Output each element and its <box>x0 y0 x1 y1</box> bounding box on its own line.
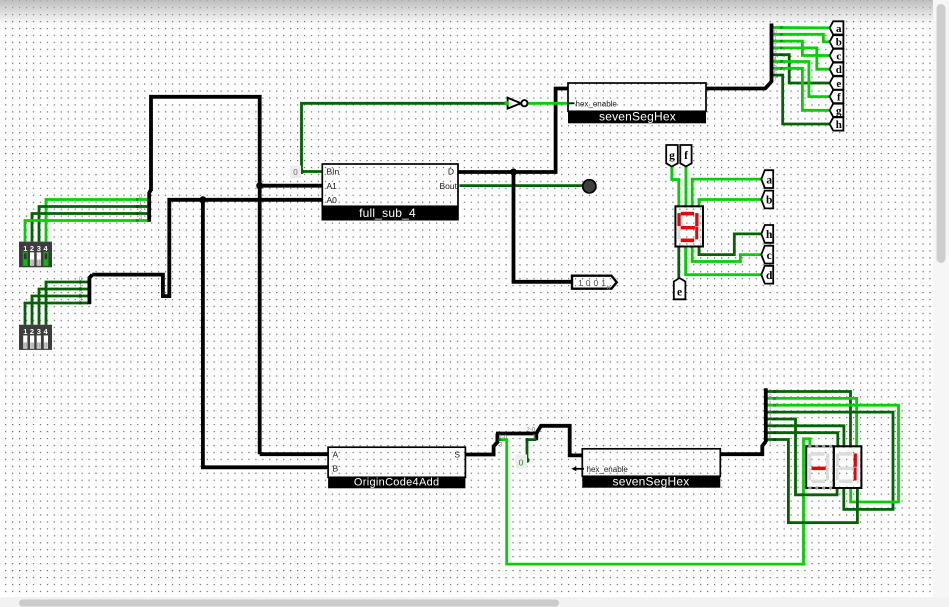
wire display to tunnel e <box>677 246 680 279</box>
wire green NOT gate output to hex_enable <box>527 102 568 105</box>
wire fan c top right <box>772 41 834 55</box>
wire green Bout to LED <box>460 184 583 187</box>
svg-text:sevenSegHex: sevenSegHex <box>599 109 676 123</box>
gate NOT U1 <box>505 98 528 109</box>
wire display to tunnel c <box>692 246 762 262</box>
svg-text:3: 3 <box>37 244 41 253</box>
svg-text:A1: A1 <box>327 181 338 191</box>
svg-text:1: 1 <box>23 244 27 253</box>
pin d <box>830 63 844 77</box>
svg-text:3: 3 <box>769 414 772 420</box>
vertical scrollbar <box>933 0 949 597</box>
wire fan bottom h <box>766 440 858 523</box>
svg-text:b: b <box>607 285 611 292</box>
seven segment display mid <box>675 206 703 246</box>
splitter DIP1 spine <box>149 190 151 222</box>
pin h <box>830 117 844 130</box>
svg-text:e: e <box>677 287 682 299</box>
svg-text:hex_enable: hex_enable <box>587 465 629 474</box>
svg-text:0: 0 <box>769 394 772 400</box>
splitter bottom right spine <box>764 388 768 442</box>
svg-text:OriginCode4Add: OriginCode4Add <box>354 477 440 489</box>
svg-text:5: 5 <box>774 63 777 69</box>
wire bus DIP2 to A0 and OriginCode4Add B <box>92 200 328 468</box>
node wire dots DIP1 legs <box>136 198 139 222</box>
svg-text:2: 2 <box>30 327 34 336</box>
svg-text:0: 0 <box>774 29 777 35</box>
wire green splitter leg to long bottom wire and left display <box>500 439 810 564</box>
value label 0 at BIn <box>290 166 301 179</box>
pin g <box>830 104 844 118</box>
svg-text:2: 2 <box>139 208 142 214</box>
pin a <box>830 21 844 35</box>
svg-text:A0: A0 <box>327 195 338 205</box>
svg-text:2: 2 <box>30 244 34 253</box>
node junction A1 <box>256 182 263 189</box>
wire tunnel b to display <box>699 200 762 208</box>
node end dot value 0 <box>524 458 529 463</box>
tunnel a <box>761 170 773 188</box>
svg-text:c: c <box>836 50 841 62</box>
svg-text:0: 0 <box>293 168 298 177</box>
splitter S labels <box>499 427 537 448</box>
svg-text:4: 4 <box>774 57 777 63</box>
wire fan bottom b <box>766 398 857 447</box>
DIP switch SW2 <box>19 325 52 350</box>
wire fan a top right <box>772 26 834 29</box>
svg-text:3: 3 <box>774 50 777 56</box>
wire fan b top right <box>772 34 834 42</box>
svg-text:5: 5 <box>769 428 772 434</box>
LED indicator <box>583 180 596 193</box>
wire fan bottom f <box>766 426 844 448</box>
svg-text:d: d <box>836 64 842 76</box>
svg-text:0: 0 <box>139 194 142 200</box>
svg-text:2: 2 <box>769 408 772 414</box>
svg-text:S: S <box>454 450 460 460</box>
svg-text:1: 1 <box>769 401 772 407</box>
svg-text:a: a <box>836 23 842 35</box>
tunnel b <box>761 191 773 209</box>
svg-text:g: g <box>669 150 675 162</box>
svg-text:1: 1 <box>774 36 777 42</box>
wire fan bottom c <box>766 405 899 502</box>
wire tunnel g to display <box>672 166 679 208</box>
wire DIP2 bit0 <box>46 282 88 325</box>
svg-text:BIn: BIn <box>327 167 340 177</box>
svg-text:c: c <box>767 250 772 262</box>
svg-text:b: b <box>836 37 842 49</box>
svg-text:4: 4 <box>769 421 772 427</box>
wire DIP2 bit3 <box>25 303 88 325</box>
wire DIP2 bit1 <box>39 289 88 325</box>
wire green NOT gate input from BIn node <box>302 103 507 171</box>
subcircuit full_sub_4 <box>322 164 459 221</box>
svg-text:7: 7 <box>769 442 772 448</box>
wire fan bottom a <box>766 392 851 448</box>
svg-text:0: 0 <box>519 458 524 468</box>
svg-text:Bout: Bout <box>440 181 458 191</box>
svg-text:3: 3 <box>139 215 142 221</box>
svg-text:D: D <box>448 167 454 177</box>
wire DIP1 bit1 <box>39 207 148 242</box>
wire DIP1 bit3 <box>25 221 148 242</box>
wire fan bottom g <box>766 433 838 448</box>
subcircuit sevenSegHex top <box>568 83 706 123</box>
svg-text:h: h <box>766 229 773 241</box>
node splitter leg corner dots <box>498 438 501 441</box>
wire bus DIP1 to A1 and OriginCode4Add A <box>151 97 328 454</box>
wire tunnel f to display <box>685 166 688 208</box>
tunnel c <box>761 246 773 264</box>
node junction A0 <box>199 196 206 203</box>
svg-text:2: 2 <box>774 43 777 49</box>
tunnel h <box>761 225 773 243</box>
svg-text:full_sub_4: full_sub_4 <box>359 206 416 220</box>
svg-text:1: 1 <box>23 327 27 336</box>
svg-text:h: h <box>836 119 842 131</box>
svg-text:6: 6 <box>769 435 772 441</box>
svg-text:6: 6 <box>774 70 777 76</box>
wire fan bottom d <box>766 412 893 509</box>
wire DIP1 bit2 <box>32 214 148 242</box>
wire fan f top right <box>772 62 834 97</box>
svg-text:1: 1 <box>139 201 142 207</box>
svg-text:f: f <box>684 150 688 162</box>
wire fan bottom e <box>766 419 837 495</box>
tunnel f <box>680 145 691 167</box>
wire bus D output to sevenSegHex input <box>458 89 572 282</box>
svg-text:3: 3 <box>37 327 41 336</box>
wire fan h top right <box>772 75 834 124</box>
wire bus lower sevenSegHex output to splitter bottom right <box>720 442 765 455</box>
probe value 1001 <box>572 276 617 292</box>
wire fan d top right <box>772 48 834 69</box>
wire DIP1 bit0 <box>46 200 148 242</box>
wire fan e top right <box>772 55 834 83</box>
svg-text:sevenSegHex: sevenSegHex <box>613 475 690 489</box>
svg-text:d: d <box>766 270 773 282</box>
wire bus S output through splitters to lower sevenSegHex <box>465 426 582 456</box>
pin b <box>830 35 844 49</box>
subcircuit OriginCode4Add <box>328 447 465 489</box>
wire DIP2 bit2 <box>32 296 88 325</box>
wire tunnel a to display <box>692 179 762 207</box>
wire dark green splitter leg with value 0 <box>527 440 536 461</box>
svg-text:7: 7 <box>774 77 777 83</box>
DIP switch SW1 <box>19 242 52 268</box>
svg-text:a: a <box>766 174 772 186</box>
pin e <box>830 76 844 90</box>
subcircuit sevenSegHex bottom <box>571 449 720 489</box>
svg-text:B: B <box>333 463 339 473</box>
svg-text:hex_enable: hex_enable <box>576 99 618 108</box>
splitter top right spine <box>770 24 774 83</box>
wire bus sevenSegHex output to splitter top right <box>706 82 772 89</box>
wire display to tunnel h <box>699 234 762 255</box>
pin c <box>830 49 844 63</box>
svg-text:b: b <box>766 195 772 207</box>
splitter DIP2 spine <box>89 275 92 305</box>
seven segment display bottom left <box>806 445 834 490</box>
tunnel g <box>666 145 678 167</box>
node BIn <box>299 169 304 174</box>
tunnel d <box>761 266 773 284</box>
tunnel e <box>674 278 686 299</box>
horizontal scrollbar <box>0 597 949 607</box>
svg-text:A: A <box>333 450 339 460</box>
value label 0 at splitter leg <box>516 455 528 469</box>
seven segment display bottom right <box>834 446 862 488</box>
wire display to tunnel d <box>686 246 762 275</box>
pin f <box>830 90 844 104</box>
svg-text:f: f <box>837 92 841 104</box>
svg-text:2-0: 2-0 <box>527 427 536 433</box>
svg-text:1 0 0 1: 1 0 0 1 <box>578 278 606 288</box>
wire fan g top right <box>772 68 834 110</box>
svg-text:e: e <box>836 78 841 90</box>
node junction D <box>510 169 517 176</box>
svg-text:g: g <box>836 105 842 117</box>
